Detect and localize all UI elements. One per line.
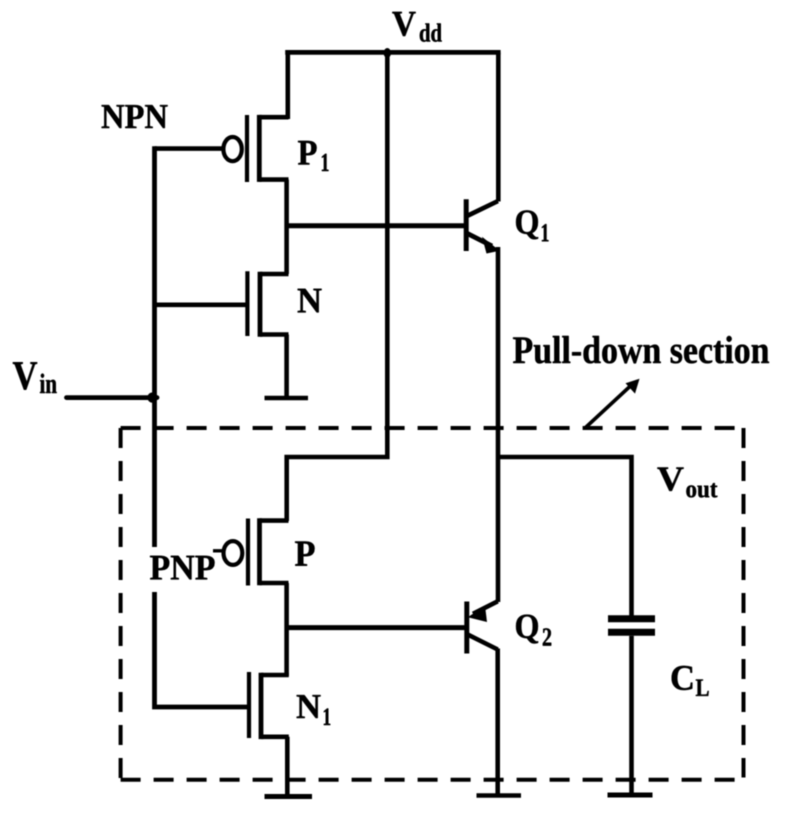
- transistor P (PMOS pull-down): [224, 518, 289, 585]
- wire P drain / N1 drain column: [284, 583, 289, 676]
- transistor N (NMOS): [247, 271, 288, 337]
- wire input bus upper segment: [152, 146, 157, 547]
- label Vin: [13, 362, 57, 393]
- Vdd label: [392, 12, 441, 42]
- wire P1 source lead: [285, 52, 290, 119]
- ground under CL: [608, 793, 653, 798]
- ground under Q2: [477, 793, 522, 798]
- wire N gate wire: [155, 302, 250, 307]
- label Q2: [516, 615, 551, 646]
- wire Vin input: [67, 395, 158, 400]
- label Pull-down section: [513, 336, 769, 364]
- ground under N: [265, 396, 309, 401]
- junction Vdd node: [384, 48, 391, 58]
- wire input bus lower segment: [155, 592, 250, 707]
- wire P1 drain / N drain column: [284, 180, 289, 274]
- arrow pointer to pull-down section: [585, 379, 640, 429]
- wire Vdd drop to pull-down P source: [287, 52, 388, 521]
- wire P1 gate wire: [155, 146, 223, 151]
- label Vout: [657, 467, 717, 497]
- ground under N1: [265, 794, 313, 799]
- label NPN: [102, 105, 168, 128]
- capacitor CL: [608, 619, 655, 794]
- wire Vout node: [498, 457, 632, 616]
- transistor Q2 (BJT pull-down): [467, 457, 498, 794]
- wire N source lead: [284, 335, 289, 398]
- wire PNP dash to bubble: [213, 549, 225, 552]
- label P: [295, 541, 314, 565]
- label P1: [298, 141, 328, 171]
- wire Q2 base wire: [285, 625, 465, 630]
- transistor N1 (NMOS pull-down): [249, 672, 289, 739]
- label CL: [672, 666, 709, 696]
- label PNP: [150, 556, 214, 580]
- transistor P1 (PMOS): [223, 115, 288, 182]
- label Q1: [516, 210, 548, 241]
- dashed box pull-down section: [121, 428, 744, 781]
- wire Vdd rail: [285, 50, 500, 55]
- junction Vin node: [147, 392, 157, 402]
- wire Q1 base wire: [285, 223, 465, 228]
- transistor Q1 (NPN BJT): [466, 52, 500, 457]
- label N: [298, 289, 322, 313]
- label N1: [297, 695, 331, 725]
- wire N1 source lead: [285, 737, 290, 796]
